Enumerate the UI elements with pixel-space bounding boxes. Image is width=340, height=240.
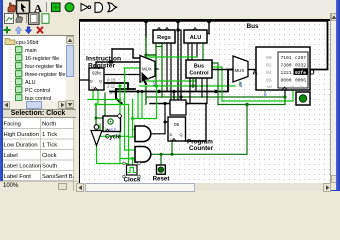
node on bus at x209: [207, 19, 211, 23]
wire green horiz y86: [140, 85, 235, 87]
mux U1 left: [140, 56, 156, 88]
AND gate icon: [95, 3, 103, 13]
wire bus top horizontal: [80, 21, 328, 70]
svg-text:ALU: ALU: [25, 80, 36, 86]
folder cpu-16bit: [5, 39, 15, 45]
wire green rail x127: [128, 105, 130, 166]
svg-text:D: D: [90, 79, 93, 84]
svg-text:Q: Q: [180, 132, 183, 137]
wire green rail x124: [124, 68, 126, 150]
incrementer box: [170, 100, 186, 115]
project tree panel: [2, 35, 74, 109]
wire dark green cycle link: [96, 117, 103, 119]
svg-text:92fe: 92fe: [295, 70, 306, 76]
node pair a: [137, 90, 140, 93]
wire green left col y99: [88, 99, 120, 101]
wire vertical x178: [177, 21, 179, 104]
svg-text:SansSerif B...: SansSerif B...: [42, 174, 74, 180]
wire gate2 output: [151, 154, 161, 165]
svg-text:Regs: Regs: [157, 35, 171, 41]
explorer toolbar row 3: + up down x: [0, 25, 60, 35]
wire green cycle bottom: [100, 124, 129, 136]
node pair b: [141, 90, 144, 93]
wire vertical x146: [145, 21, 147, 37]
svg-text:Counter: Counter: [189, 145, 214, 152]
reset button: [157, 165, 166, 174]
node green y86 b: [191, 84, 194, 87]
wire green y104 left: [96, 104, 129, 106]
svg-text:0332: 0332: [295, 62, 306, 68]
wire incrementer feed b: [180, 97, 182, 101]
svg-text:16-register file: 16-register file: [25, 56, 59, 62]
svg-text:North: North: [42, 122, 56, 128]
canvas vertical scrollbar: [331, 13, 337, 183]
label Program Counter: [187, 139, 214, 153]
svg-text:Register: Register: [88, 63, 116, 70]
ram sel stub: [264, 90, 266, 92]
and gate G1: [135, 126, 151, 142]
wire green MUX1 input: [124, 67, 140, 69]
svg-text:02: 02: [266, 62, 272, 68]
svg-text:00: 00: [266, 55, 272, 61]
wire IR Q to MUX1: [104, 74, 140, 76]
svg-text:05: 05: [174, 122, 180, 128]
register IR 92fe: [89, 68, 104, 90]
and gate G2: [135, 147, 151, 163]
node PC clock: [170, 153, 173, 156]
svg-text:Instruction: Instruction: [86, 56, 121, 63]
wire MUX2 out to RAM A: [248, 69, 256, 71]
node NOT feed corner: [95, 103, 98, 106]
selection header: [0, 109, 76, 118]
svg-text:Bus: Bus: [247, 23, 260, 30]
input pin icon: [52, 3, 61, 12]
svg-text:D: D: [170, 132, 173, 137]
attribute table: [0, 118, 74, 181]
node y91: [157, 90, 160, 93]
node RAM clk: [283, 95, 286, 98]
edit tool button (selected): [17, 1, 30, 14]
svg-text:Low Duration: Low Duration: [4, 143, 38, 149]
svg-text:D: D: [310, 70, 315, 77]
svg-text:three-register file: three-register file: [25, 72, 65, 78]
output pin icon: [65, 3, 74, 12]
cursor arrow: [142, 72, 150, 86]
svg-text:Cycle: Cycle: [105, 135, 122, 141]
svg-text:1 Tick: 1 Tick: [42, 132, 57, 138]
wire NOT output bright green: [97, 146, 129, 164]
svg-text:92fe: 92fe: [92, 71, 101, 76]
wire black bus y91: [110, 70, 233, 92]
tree vertical scrollbar: [66, 36, 74, 108]
wire dark green y97: [146, 96, 285, 98]
wire RAM clk stub: [284, 90, 286, 97]
node y103: [184, 102, 187, 105]
wire green pair to gate1 b: [141, 92, 143, 119]
svg-text:04: 04: [266, 70, 272, 76]
clock component: [127, 165, 138, 175]
register PC 05: [168, 117, 186, 142]
wires Regs bottom pins black: [166, 43, 168, 91]
svg-text:Label Font: Label Font: [4, 174, 32, 180]
svg-text:7300: 7300: [281, 62, 292, 68]
wire dark green rail x218 from bus control: [212, 63, 218, 105]
node feed b: [179, 95, 182, 98]
svg-text:c207: c207: [295, 55, 306, 61]
wire vertical x209 to ALU: [204, 21, 209, 34]
svg-text:sel: sel: [267, 85, 272, 89]
toolbar row 2 icons: [0, 12, 60, 25]
separator: [46, 2, 48, 12]
wire green rail x131: [133, 86, 157, 137]
wire jog to x181: [178, 30, 181, 97]
wire bright green y101 to RAM ld: [222, 90, 293, 101]
wire dark green reset net: [161, 105, 247, 155]
wire IR D input: [80, 79, 89, 81]
poke tool hand icon: [8, 3, 16, 12]
node on bus at x146: [144, 19, 148, 23]
window borders: [0, 0, 3, 191]
wire green pair to gate1 a: [137, 92, 139, 119]
svg-text:Q: Q: [99, 79, 102, 84]
tree lines: [10, 45, 14, 98]
wire bright green rail x222 from bus control: [212, 67, 222, 101]
node x120 y86: [118, 84, 121, 87]
mux U2 right: [233, 56, 248, 89]
wire green horiz y81: [140, 80, 196, 82]
tree horizontal scrollbar: [2, 101, 66, 109]
wire IR enable green: [92, 90, 94, 100]
counter Cycle: [103, 114, 122, 132]
svg-text:MUX: MUX: [142, 67, 152, 72]
wire black loop PC: [186, 104, 207, 142]
wire green under regs: [148, 56, 197, 58]
wire gate1 input a: [133, 129, 136, 131]
wire IR top to MUX1: [96, 62, 140, 68]
wire Bus Control out to MUX2: [212, 69, 233, 71]
NOT gate icon: [81, 4, 91, 11]
node gate1 out: [163, 102, 166, 105]
wire vertical x112: [111, 49, 113, 62]
node dark green x247: [245, 103, 248, 106]
wire gate1 output: [151, 104, 168, 134]
node green y86: [155, 84, 158, 87]
led output: [296, 92, 310, 105]
svg-text:main: main: [25, 48, 37, 54]
wire green rail x120: [119, 86, 121, 164]
svg-text:Label: Label: [4, 153, 18, 159]
alu box ALU: [184, 28, 207, 44]
svg-text:Facing: Facing: [4, 122, 21, 128]
svg-text:Clock: Clock: [42, 153, 57, 159]
wire upper L to MUX1: [112, 49, 140, 58]
register Regs: [153, 28, 175, 44]
svg-text:1: 1: [153, 82, 156, 88]
node on bus at x178: [176, 19, 180, 23]
svg-text:8000: 8000: [281, 77, 292, 83]
wires Regs bottom pins dark green pair: [155, 43, 157, 86]
left panel bg: [0, 13, 88, 191]
svg-text:PC control: PC control: [25, 88, 50, 94]
node feed a: [172, 90, 175, 93]
wire black y103: [150, 103, 206, 105]
svg-text:1221: 1221: [281, 70, 292, 76]
svg-text:four-register file: four-register file: [25, 64, 62, 70]
svg-text:cpu-16bit: cpu-16bit: [16, 40, 39, 46]
svg-text:06: 06: [266, 77, 272, 83]
wire ALU dark green pin: [202, 43, 204, 60]
selection handles clock: [123, 162, 141, 178]
wire gate2 input b: [120, 158, 135, 160]
svg-text:7101: 7101: [281, 55, 292, 61]
svg-text:2-11: 2-11: [107, 84, 116, 89]
status / zoom bar: [0, 181, 79, 191]
wire dark green PC clock: [171, 141, 173, 154]
ram box: [253, 47, 315, 90]
canvas horizontal scrollbar: [76, 183, 331, 191]
wire IR pin2 green: [97, 90, 99, 105]
svg-text:Reset: Reset: [153, 176, 170, 183]
CIRCUIT CANVAS: [79, 19, 331, 184]
wire incrementer feed a: [173, 92, 175, 102]
box Bus Control: [186, 60, 212, 78]
node x178 y30: [176, 28, 179, 31]
splitter arm a: [104, 83, 128, 89]
svg-text:South: South: [42, 164, 57, 170]
svg-text:en 0: en 0: [109, 128, 116, 132]
node cycle link: [95, 117, 98, 120]
not gate down: [91, 125, 102, 146]
svg-text:0-15: 0-15: [107, 78, 116, 83]
wire dark green bc pin: [192, 78, 194, 86]
svg-text:ALU: ALU: [190, 35, 202, 41]
node dark green x146 y55: [144, 53, 147, 56]
node y62: [108, 60, 111, 63]
wire clock stub: [132, 159, 134, 166]
wire dark green to Regs: [146, 37, 156, 104]
svg-text:A: A: [253, 70, 258, 77]
splitter arm b: [116, 88, 135, 90]
node y91 b: [214, 90, 217, 93]
svg-text:Label Location: Label Location: [4, 164, 42, 170]
wire dark green NOT feed: [95, 105, 97, 125]
svg-text:ld: ld: [291, 85, 294, 89]
OR gate icon: [108, 3, 117, 12]
toolbar background: [0, 0, 340, 17]
svg-text:High Duration: High Duration: [4, 132, 39, 138]
splitter trunk drop: [116, 89, 121, 104]
wires Bus Control bottom pins: [189, 78, 191, 104]
wire gate2 input a: [125, 149, 136, 151]
wire gate1 input b: [129, 136, 136, 138]
svg-text:1 Tick: 1 Tick: [42, 143, 57, 149]
wires ALU bottom pins: [187, 43, 189, 60]
wire IR clock dark green: [104, 93, 106, 116]
svg-text:Bus: Bus: [194, 64, 204, 70]
dark green jog: [156, 46, 162, 48]
svg-text:MUX: MUX: [235, 68, 245, 73]
svg-text:0006: 0006: [295, 77, 306, 83]
mux1 output stub: [155, 68, 158, 70]
toolbar row 1 icons: [0, 0, 125, 15]
node x112 y62: [110, 60, 113, 63]
svg-text:Control: Control: [189, 71, 209, 77]
label Instruction Register: [86, 56, 121, 70]
wire dark green y104 to RAM clk: [218, 97, 285, 105]
